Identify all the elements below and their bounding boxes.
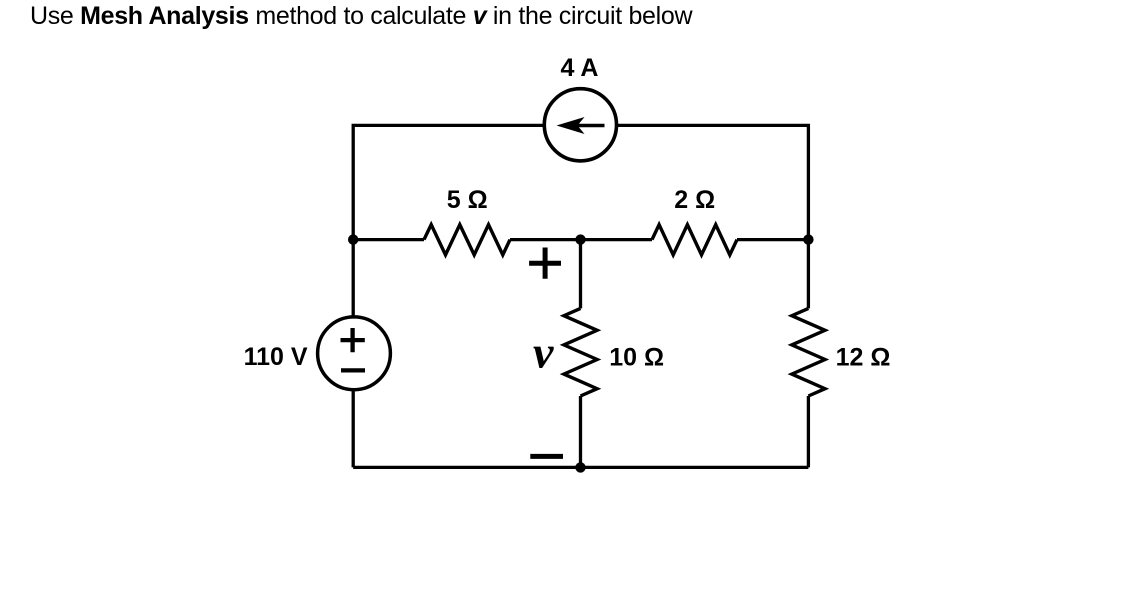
resistor R4 12ohm zigzag xyxy=(792,308,825,396)
wire mid-center (5 ohm to 2 ohm through node B) xyxy=(510,238,652,241)
svg-text:4 A: 4 A xyxy=(561,54,599,82)
current source I1 arrow head xyxy=(557,117,585,134)
resistor R3 10ohm zigzag xyxy=(564,308,597,396)
wire top right horizontal (current source to right corner) xyxy=(616,125,808,308)
current source I1 arrow tail xyxy=(575,124,605,128)
wire top left horizontal (left corner to current source) xyxy=(353,125,544,317)
resistor R1 5ohm zigzag xyxy=(424,225,510,255)
svg-text:110 V: 110 V xyxy=(244,343,308,371)
node B dot (center middle) xyxy=(575,234,585,244)
svg-text:10 Ω: 10 Ω xyxy=(609,343,664,371)
node A dot (left middle) xyxy=(348,234,358,244)
wire mid-right (2 ohm to node C) xyxy=(737,238,808,241)
svg-text:2 Ω: 2 Ω xyxy=(674,186,715,214)
svg-text:v: v xyxy=(533,326,554,377)
polarity minus sign of v (bottom of 10 ohm) xyxy=(530,454,563,459)
svg-text:5 Ω: 5 Ω xyxy=(447,186,488,214)
svg-text:12 Ω: 12 Ω xyxy=(836,343,891,371)
wire middle vertical upper (node B to 10 ohm) xyxy=(579,240,582,309)
voltage source V1 plus sign xyxy=(341,328,365,352)
wire right vertical lower (12 ohm to bottom rail) xyxy=(807,396,810,467)
svg-text:Use Mesh Analysis method to ca: Use Mesh Analysis method to calculate v … xyxy=(30,2,693,30)
wire left bottom (voltage source to bottom rail) xyxy=(352,389,355,467)
wire mid-left (node A to 5 ohm) xyxy=(353,238,424,241)
wire bottom rail xyxy=(353,466,808,469)
node D dot (bottom middle) xyxy=(575,462,585,472)
polarity plus sign of v (top of 10 ohm) xyxy=(529,248,561,279)
resistor R2 2ohm zigzag xyxy=(652,225,737,255)
current source I1 circle xyxy=(544,89,616,161)
voltage source V1 circle xyxy=(318,317,391,390)
node C dot (right middle) xyxy=(803,234,813,244)
wire middle vertical lower (10 ohm to bottom rail) xyxy=(579,396,582,467)
voltage source V1 minus sign xyxy=(341,368,365,372)
